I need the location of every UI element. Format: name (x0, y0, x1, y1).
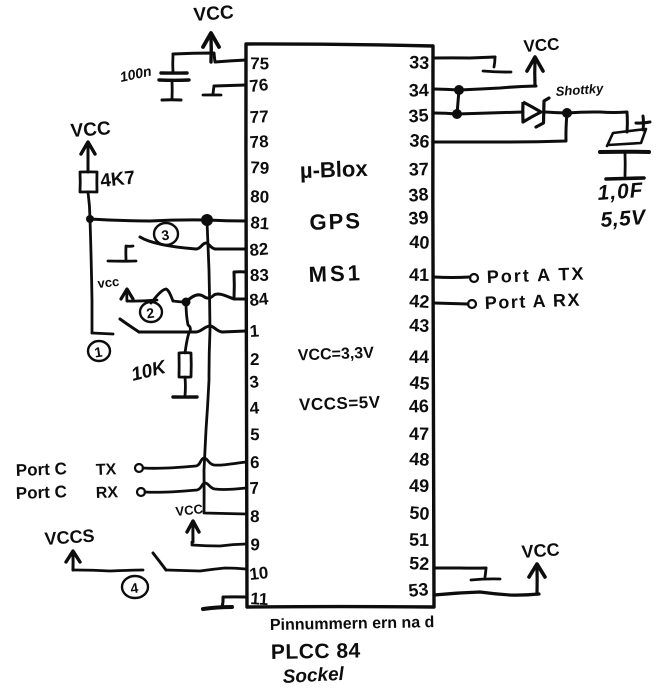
terminal circle Port C TX (135, 464, 143, 472)
switch S2 circled 2 marker (140, 302, 162, 322)
power VCC arrow (pin 9) (187, 521, 199, 542)
svg-text:35: 35 (408, 105, 429, 126)
svg-text:9: 9 (250, 535, 261, 555)
svg-text:46: 46 (409, 396, 430, 417)
svg-text:Pinnummern ern na d: Pinnummern ern na d (270, 614, 435, 634)
wire R2 to ground (184, 377, 187, 396)
capacitor C2 bottom lead (624, 153, 627, 176)
power VCC label (pin 34) (523, 35, 560, 56)
pin 34 label (right column) (408, 80, 429, 101)
net label Port C (RX row) (15, 482, 67, 503)
svg-text:PLCC 84: PLCC 84 (271, 639, 361, 664)
svg-text:75: 75 (250, 54, 269, 74)
switch S4 circled 4 marker (122, 576, 148, 598)
capacitor C1 100n plates (159, 73, 189, 80)
wire node B down to pin 8 (204, 221, 246, 514)
diode D1 Schottky body (523, 98, 549, 127)
wire switch S1 fixed contact (92, 333, 113, 334)
svg-text:3: 3 (249, 372, 260, 392)
net label Port A TX (486, 264, 585, 287)
svg-text:vcc: vcc (97, 274, 120, 291)
pin 51 label (right column) (409, 530, 429, 550)
capacitor C2 bottom terminal bar (606, 178, 644, 179)
node F junction dot (562, 108, 572, 118)
svg-text:7: 7 (249, 478, 260, 498)
pin 11 label (left column) (250, 589, 269, 609)
svg-text:Port A TX: Port A TX (486, 264, 585, 287)
IC label VCC=3,3V (298, 345, 375, 365)
IC label GPS (309, 208, 362, 235)
terminal circle Port C RX (137, 488, 145, 496)
svg-text:1,0F: 1,0F (597, 179, 645, 205)
switch S4 arm (153, 553, 166, 570)
svg-text:53: 53 (408, 579, 430, 601)
pin 5 label (left column) (250, 425, 260, 444)
IC U1 µ-Blox GPS MS1 (PLCC84 socket) body (246, 44, 434, 607)
pin 52 label (right column) (409, 553, 430, 574)
svg-text:79: 79 (250, 158, 270, 178)
power VCC arrow (near S2) (121, 289, 133, 301)
pin 36 label (right column) (409, 130, 431, 152)
svg-text:10: 10 (248, 563, 269, 584)
wire pin 52 stub (434, 567, 486, 570)
node D junction dot (454, 85, 464, 95)
pin 50 label (right column) (409, 503, 430, 524)
svg-text:81: 81 (250, 213, 270, 233)
jumper J1 open contact at pin 76 (203, 86, 221, 95)
node A junction dot (86, 215, 94, 223)
IC label VCCS=5V (299, 393, 381, 415)
pin 45 label (right column) (409, 372, 431, 394)
wire pin 11 to ground (222, 597, 246, 607)
wire pin 76 stub (214, 85, 246, 86)
pin 39 label (right column) (408, 207, 430, 229)
svg-text:RX: RX (96, 484, 119, 502)
svg-text:VCC: VCC (175, 501, 204, 519)
svg-text:6: 6 (250, 453, 260, 472)
ground symbol at pin 11 (203, 607, 232, 609)
node E junction dot (452, 109, 462, 119)
pin 42 label (right column) (409, 291, 430, 312)
caption Sockel (282, 664, 345, 688)
svg-text:36: 36 (409, 130, 431, 152)
svg-text:82: 82 (249, 239, 269, 260)
wire pin 35 to diode D1 (434, 112, 523, 114)
resistor R2 10K body (179, 353, 191, 377)
pin 49 label (right column) (409, 476, 430, 496)
svg-text:42: 42 (409, 291, 430, 312)
svg-text:VCC: VCC (193, 2, 235, 26)
wire pin 53 to VCC arrow (434, 592, 539, 595)
svg-text:VCC: VCC (521, 539, 560, 562)
power VCC label (pin 53) (521, 539, 560, 562)
power VCCS label (44, 526, 95, 549)
pin 38 label (right column) (408, 184, 430, 206)
power VCCS arrow (66, 551, 80, 570)
wire node A down to switch S1 (90, 219, 92, 333)
svg-text:2: 2 (250, 350, 259, 369)
caption PLCC84 (271, 639, 361, 664)
pin 7 label (left column) (249, 478, 260, 498)
wire S2 to node C (173, 301, 186, 302)
wire node A to pin 81 (90, 219, 246, 221)
pin 2 label (left column) (250, 350, 259, 369)
switch S2 arm (151, 289, 173, 303)
switch S3 fixed contact (L symbol) (108, 246, 136, 261)
pin 83 label (left column) (250, 266, 269, 285)
value label 10K (129, 357, 169, 386)
wire node D to VCC arrow (459, 86, 536, 90)
wire node C to R2 (185, 302, 190, 353)
svg-text:4K7: 4K7 (99, 167, 136, 192)
wire Port C RX to pin 7 (145, 483, 246, 492)
wire Port C TX to pin 6 (143, 458, 246, 468)
wire VCC to switch S2 (127, 300, 157, 301)
pin 77 label (left column) (249, 107, 269, 127)
wire D1 to node F (545, 112, 567, 113)
svg-text:78: 78 (249, 132, 269, 152)
svg-text:Sockel: Sockel (282, 664, 345, 688)
value label 100n (118, 63, 153, 85)
wire pin 34 to node D (434, 89, 459, 90)
svg-text:1: 1 (249, 321, 260, 341)
power VCC label (top) (193, 2, 235, 26)
value label 4K7 (99, 167, 136, 192)
wire S1 to pin 1 (139, 326, 246, 332)
pin 44 label (right column) (409, 347, 429, 367)
power VCC label (pin 9) (175, 501, 204, 519)
wire pin 42 stub (434, 303, 468, 304)
power VCC label (small, near S2) (97, 274, 120, 291)
svg-text:5: 5 (250, 425, 260, 444)
pin 48 label (right column) (409, 449, 430, 470)
node B junction dot (pin 81 net) (201, 214, 213, 226)
svg-text:11: 11 (250, 589, 269, 609)
svg-text:45: 45 (409, 372, 431, 394)
svg-text:Port A RX: Port A RX (484, 290, 581, 313)
node C junction dot (182, 298, 191, 307)
pin 8 label (left column) (250, 507, 260, 526)
svg-text:8: 8 (250, 507, 260, 526)
svg-text:34: 34 (408, 80, 429, 101)
power VCC arrow (left) (81, 142, 95, 172)
value label 5,5V (600, 206, 648, 232)
IC label µ-Blox (299, 156, 368, 183)
pin 43 label (right column) (409, 315, 430, 336)
svg-text:VCCS=5V: VCCS=5V (299, 393, 381, 415)
svg-text:VCC=3,3V: VCC=3,3V (298, 345, 375, 365)
switch S1 arm (120, 319, 139, 332)
pin 78 label (left column) (249, 132, 269, 152)
caption Pinnummern (270, 614, 435, 634)
pin 6 label (left column) (250, 453, 260, 472)
svg-text:76: 76 (249, 75, 270, 96)
svg-text:GPS: GPS (309, 208, 362, 235)
svg-text:83: 83 (250, 266, 269, 285)
pin 76 label (left column) (249, 75, 270, 96)
pin 75 label (left column) (250, 54, 269, 74)
pin 40 label (right column) (409, 232, 430, 253)
svg-text:Port C: Port C (15, 482, 67, 503)
switch S3 circled 3 marker (154, 223, 178, 245)
svg-text:43: 43 (409, 315, 430, 336)
terminal circle Port A TX (470, 274, 478, 282)
svg-text:48: 48 (409, 449, 430, 470)
ground symbol below R2 (173, 395, 197, 398)
capacitor C2 top plate (607, 129, 646, 146)
svg-text:33: 33 (409, 52, 430, 73)
power VCC arrow (pin 53) (529, 564, 545, 594)
resistor R1 4K7 body (80, 172, 97, 192)
wire node F to capacitor C2 (567, 112, 627, 132)
capacitor C1 100n top lead (171, 55, 174, 73)
svg-text:VCC: VCC (523, 35, 560, 56)
power VCC arrow (pin 34) (527, 57, 543, 86)
pin 4 label (left column) (249, 398, 260, 418)
wire VCC to pin 9 (192, 542, 246, 546)
wire pin 33 stub (434, 57, 495, 58)
switch S1 circled 1 marker (88, 341, 110, 361)
svg-text:37: 37 (408, 159, 429, 180)
wire node D to node E (457, 90, 459, 114)
svg-text:5,5V: 5,5V (600, 206, 648, 232)
svg-text:MS1: MS1 (308, 260, 363, 287)
capacitor C2 bottom plate (600, 150, 649, 154)
svg-text:49: 49 (409, 476, 430, 496)
svg-text:µ-Blox: µ-Blox (299, 156, 368, 183)
svg-text:77: 77 (249, 107, 269, 127)
pin 53 label (right column) (408, 579, 430, 601)
pin 37 label (right column) (408, 159, 429, 180)
svg-text:84: 84 (249, 289, 270, 310)
svg-text:51: 51 (409, 530, 429, 550)
pin 79 label (left column) (250, 158, 270, 178)
wire S4 to pin 10 (166, 568, 246, 571)
capacitor C1 bottom terminal tick (162, 98, 181, 101)
svg-text:47: 47 (409, 424, 429, 444)
pin 81 label (left column) (250, 213, 270, 233)
pin 35 label (right column) (408, 105, 429, 126)
net label TX (96, 461, 117, 479)
svg-text:4: 4 (249, 398, 260, 418)
wire node F to pin 36 (434, 113, 567, 142)
wire R1 to node A (88, 192, 90, 219)
pin 82 label (left column) (249, 239, 269, 260)
IC label MS1 (308, 260, 363, 287)
wire pin 41 stub (434, 276, 470, 279)
net label RX (96, 484, 119, 502)
svg-text:Port C: Port C (15, 459, 67, 480)
pin 80 label (left column) (250, 187, 270, 207)
switch S3 arm and wire to pin 82 (140, 237, 246, 249)
pin 41 label (right column) (409, 265, 429, 285)
power VCC label (left) (70, 118, 112, 142)
svg-text:38: 38 (408, 184, 430, 206)
pin 33 label (right column) (409, 52, 430, 73)
svg-text:52: 52 (409, 553, 430, 574)
pin 9 label (left column) (250, 535, 261, 555)
wire VCCS to switch S4 (73, 570, 143, 571)
svg-text:50: 50 (409, 503, 430, 524)
jumper J2 open contact at pin 33 (483, 57, 511, 72)
svg-text:39: 39 (408, 207, 430, 229)
pin 10 label (left column) (248, 563, 269, 584)
wire node C to pins 83/84 (186, 294, 246, 302)
value label 1,0F (597, 179, 645, 205)
pin 47 label (right column) (409, 424, 429, 444)
svg-text:VCCS: VCCS (44, 526, 95, 549)
pin 84 label (left column) (249, 289, 270, 310)
net label Port A RX (484, 290, 581, 313)
svg-text:41: 41 (409, 265, 429, 285)
svg-text:44: 44 (409, 347, 429, 367)
pin 1 label (left column) (249, 321, 260, 341)
terminal circle Port A RX (468, 300, 476, 308)
pin 3 label (left column) (249, 372, 260, 392)
capacitor C1 100n bottom lead (171, 80, 174, 99)
wire pin 83 stub (234, 272, 246, 299)
jumper J3 open contact at pin 52 (471, 568, 500, 580)
svg-text:TX: TX (96, 461, 117, 479)
svg-text:40: 40 (409, 232, 430, 253)
pin 46 label (right column) (409, 396, 430, 417)
net label Port C (TX row) (15, 459, 67, 480)
svg-text:VCC: VCC (70, 118, 112, 142)
label Shottky (555, 81, 604, 99)
wire VCC node to pin 75 (173, 53, 246, 62)
svg-text:80: 80 (250, 187, 270, 207)
power VCC arrow (top) (203, 33, 219, 62)
capacitor C2 polarity + sign (636, 116, 650, 130)
